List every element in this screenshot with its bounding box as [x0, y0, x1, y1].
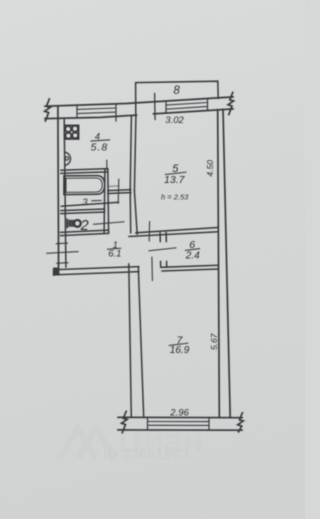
wall: bottom exterior band top line	[118, 416, 242, 418]
svg-text:8: 8	[173, 85, 180, 97]
wall: top exterior band bottom line (gap = balcony door)	[45, 109, 233, 119]
door bathroom jamb stub	[106, 160, 108, 169]
toilet bowl	[74, 220, 81, 227]
svg-text:3.02: 3.02	[165, 115, 184, 126]
break symbol top-right	[228, 93, 234, 115]
break symbol top-left	[45, 99, 51, 121]
door entrance leaf line	[47, 252, 78, 254]
break symbol bottom-right	[238, 413, 244, 432]
wall: bathroom top line2	[61, 172, 108, 174]
label underline room4	[91, 140, 110, 141]
wall: room5 bottom band top line	[136, 228, 217, 233]
window kitchen hatch inner lines	[77, 108, 116, 114]
wall: toilet bottom line2	[61, 233, 108, 235]
door kitchen tick	[117, 179, 120, 203]
wall: strip right wall left line	[129, 191, 132, 233]
svg-text:4.50: 4.50	[205, 160, 215, 177]
wall: bottom exterior band bottom line	[118, 429, 242, 431]
label underline room6	[186, 249, 200, 251]
wall: bathroom-toilet right wall right line	[107, 169, 110, 234]
wall: right exterior outer line	[218, 110, 220, 418]
svg-text:2: 2	[80, 218, 89, 234]
sink	[65, 152, 71, 165]
toilet cistern bar	[66, 219, 68, 228]
door kitchen frame faint line	[108, 185, 119, 187]
wall: hallway bottom / room7 top band top line with door gap	[54, 265, 217, 269]
wall: hallway bottom left end cap	[53, 270, 55, 275]
door room5 tick	[148, 222, 150, 242]
window balcony end bars	[166, 99, 208, 114]
window room7 end bars	[148, 417, 210, 430]
wall: right exterior inner line	[223, 109, 230, 417]
wall: kitchen-room5 divider left line	[130, 116, 131, 191]
wall: kitchen bottom (door wall) top line	[108, 189, 131, 192]
svg-text:6.1: 6.1	[108, 248, 121, 259]
door room7 tick	[151, 257, 154, 280]
door entrance jamb rung top	[56, 242, 67, 245]
watermark cian logo chevron	[60, 428, 114, 458]
wall: room5 bottom band bottom line	[129, 232, 218, 237]
svg-text:2.96: 2.96	[169, 407, 189, 418]
door entrance jamb rung bottom	[57, 262, 68, 265]
window room7 hatch inner lines	[148, 422, 210, 426]
window kitchen end bars	[77, 104, 116, 121]
label underline room5	[166, 172, 187, 174]
balcony outline	[136, 81, 219, 116]
wall: bathroom bottom line	[61, 202, 118, 206]
wall: top exterior band top line	[45, 97, 233, 106]
svg-text:6: 6	[189, 239, 195, 251]
svg-text:13.7: 13.7	[164, 174, 186, 186]
door room6 tick	[149, 248, 176, 251]
wall: kitchen-room5 divider right line	[134, 116, 136, 191]
wall: toilet bottom line1	[61, 230, 108, 232]
svg-text:5.8: 5.8	[91, 142, 109, 154]
svg-text:h = 2.53: h = 2.53	[161, 193, 189, 202]
window balcony hatch inner lines	[166, 103, 208, 110]
svg-text:5.67: 5.67	[209, 333, 219, 350]
wall: room6 left wall inner line with door gap	[165, 233, 168, 267]
wall: kitchen bottom (door wall) bottom line	[108, 192, 131, 195]
bathtub inner	[66, 178, 102, 192]
bathtub outer	[64, 176, 105, 195]
wall: left exterior inner line	[64, 118, 66, 267]
leader dash room2	[94, 222, 124, 225]
wall: left exterior outer line	[57, 106, 60, 274]
wall: toilet top line1	[61, 209, 105, 211]
wall: room6 left wall outer line with door gap	[159, 233, 162, 267]
label underline room1	[108, 248, 121, 249]
wall: bathroom-toilet right wall left line	[103, 169, 106, 233]
wall: room7 left wall outer line	[129, 264, 132, 417]
wall: hallway bottom / room7 top band bottom line with door gap	[54, 269, 218, 275]
svg-text:ID 24461993: ID 24461993	[103, 446, 189, 463]
wall: toilet top line2	[61, 212, 105, 214]
svg-text:16.9: 16.9	[170, 345, 190, 356]
svg-text:2.4: 2.4	[185, 251, 200, 262]
label underline room7	[169, 343, 188, 345]
wall: bathroom top line1	[61, 169, 108, 171]
wall: room7 left wall inner line	[138, 267, 143, 417]
break symbol bottom-left	[122, 411, 128, 432]
balcony door divider pole	[154, 94, 157, 120]
leader dash room3	[92, 199, 102, 201]
wall: strip right wall right line	[134, 191, 137, 234]
svg-text:3: 3	[82, 197, 88, 208]
stove	[64, 125, 78, 139]
